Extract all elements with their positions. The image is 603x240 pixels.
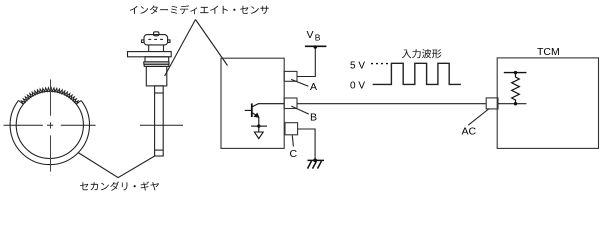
gear vertical centerline — [50, 80, 52, 172]
label: セカンダリ・ギヤ — [80, 181, 159, 190]
terminal C — [285, 123, 298, 135]
leader to B — [291, 106, 309, 114]
gear inner circle — [16, 91, 83, 158]
svg-text:B: B — [315, 32, 321, 42]
svg-text:AC: AC — [462, 126, 477, 138]
wire C to ground — [298, 129, 316, 160]
chassis ground — [308, 160, 325, 168]
TCM supply bar — [504, 72, 527, 74]
terminal B — [284, 98, 297, 109]
wire B to TCM AC — [297, 103, 486, 105]
ground junction dot — [313, 158, 317, 162]
TCM box — [497, 58, 598, 148]
terminal A — [284, 71, 297, 81]
emitter node dot — [257, 124, 260, 127]
wire leader-to-circuit-box — [196, 20, 228, 66]
gear outer rim arc — [10, 100, 89, 164]
internal down-arrow (ground) — [254, 132, 263, 139]
tooth band end right — [76, 100, 81, 104]
sensor circuit box — [221, 58, 284, 148]
VB junction dot — [314, 45, 318, 49]
leader to A — [291, 79, 308, 86]
wire A to VB — [297, 46, 315, 76]
svg-text:5 V: 5 V — [350, 61, 365, 72]
dotted 5V reference — [371, 63, 390, 65]
label: 入力波形 — [402, 49, 442, 58]
base bar — [251, 103, 253, 117]
gear teeth — [21, 88, 78, 105]
base stub — [245, 109, 252, 111]
TCM internal wire — [498, 103, 526, 105]
intermediate sensor (physical) — [128, 32, 172, 156]
secondary gear — [10, 88, 89, 165]
terminal AC — [486, 98, 498, 109]
VB supply bar — [305, 45, 327, 47]
resistor top dot — [514, 71, 517, 74]
svg-text:A: A — [310, 81, 317, 93]
leader: gear/sensor tip to gear label — [78, 153, 155, 178]
gear horizontal centerline — [4, 124, 96, 126]
label: インターミディエイト・センサ — [130, 5, 269, 14]
svg-text:V: V — [307, 29, 314, 41]
svg-text:B: B — [310, 112, 317, 124]
collector — [252, 104, 284, 107]
leader to C — [292, 135, 293, 146]
tooth band end left — [19, 100, 24, 104]
resistor bottom dot — [514, 102, 517, 105]
emitter with arrow — [252, 113, 256, 116]
input square waveform — [373, 63, 461, 84]
transistor Q1 — [245, 103, 285, 131]
pull-up resistor — [512, 73, 520, 104]
svg-text:C: C — [290, 148, 298, 160]
wire leader-to-sensor — [165, 20, 196, 77]
sensor horizontal centerline — [140, 124, 183, 126]
emitter node crossbar — [251, 125, 267, 127]
svg-text:TCM: TCM — [537, 46, 560, 58]
leader to AC — [468, 109, 489, 126]
svg-text:0 V: 0 V — [350, 81, 365, 92]
